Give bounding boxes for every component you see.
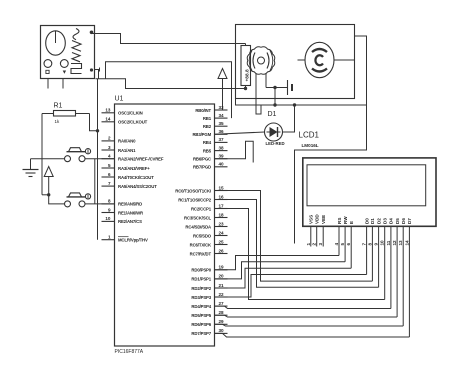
svg-text:RA4/T0CKI/C1OUT: RA4/T0CKI/C1OUT xyxy=(118,175,154,180)
svg-text:D6: D6 xyxy=(401,218,406,224)
svg-text:RC5/SDO: RC5/SDO xyxy=(193,233,212,238)
svg-text:OSC2/CLKOUT: OSC2/CLKOUT xyxy=(118,120,148,125)
svg-text:1k: 1k xyxy=(55,119,61,124)
svg-text:10: 10 xyxy=(380,240,385,246)
svg-text:RA0/AN0: RA0/AN0 xyxy=(118,139,136,144)
svg-text:12: 12 xyxy=(392,240,397,246)
svg-text:7: 7 xyxy=(108,181,111,186)
svg-text:VDD: VDD xyxy=(315,214,320,224)
svg-text:VSS: VSS xyxy=(309,215,314,224)
svg-text:5: 5 xyxy=(108,163,111,168)
svg-text:30: 30 xyxy=(219,328,225,333)
svg-text:14: 14 xyxy=(404,240,409,246)
svg-text:13: 13 xyxy=(105,108,111,113)
svg-text:RC3/SCK/SCL: RC3/SCK/SCL xyxy=(184,215,212,220)
svg-text:RE0/AN5/RD: RE0/AN5/RD xyxy=(118,202,142,207)
svg-text:25: 25 xyxy=(219,239,225,244)
svg-text:+88.8: +88.8 xyxy=(245,69,251,81)
svg-text:D1: D1 xyxy=(370,218,375,224)
svg-text:18: 18 xyxy=(219,212,225,217)
svg-text:RB0/INT: RB0/INT xyxy=(195,108,211,113)
svg-text:39: 39 xyxy=(219,154,225,159)
svg-text:RC7/RX/DT: RC7/RX/DT xyxy=(190,251,212,256)
svg-text:6: 6 xyxy=(346,243,351,246)
svg-text:OSC1/CLKIN: OSC1/CLKIN xyxy=(118,111,143,116)
svg-text:VEE: VEE xyxy=(321,215,326,224)
svg-text:4: 4 xyxy=(334,243,339,246)
svg-text:24: 24 xyxy=(219,230,225,235)
svg-text:1: 1 xyxy=(108,235,111,240)
svg-text:36: 36 xyxy=(219,129,225,134)
svg-text:RS: RS xyxy=(337,218,342,224)
svg-text:17: 17 xyxy=(219,203,225,208)
svg-text:13: 13 xyxy=(398,240,403,246)
svg-text:1: 1 xyxy=(306,243,311,246)
svg-text:33: 33 xyxy=(219,105,225,110)
svg-text:RE1/AN6/WR: RE1/AN6/WR xyxy=(118,210,144,215)
svg-text:RC1/T1OSI/CCP2: RC1/T1OSI/CCP2 xyxy=(178,197,212,202)
svg-text:RD5/PSP5: RD5/PSP5 xyxy=(191,313,211,318)
svg-text:RD7/PSP7: RD7/PSP7 xyxy=(191,331,211,336)
svg-text:D1: D1 xyxy=(268,111,277,118)
svg-text:RA2/AN2/VREF-/CVREF: RA2/AN2/VREF-/CVREF xyxy=(118,157,164,162)
svg-text:15: 15 xyxy=(219,185,225,190)
svg-text:27: 27 xyxy=(219,301,225,306)
svg-text:R1: R1 xyxy=(54,103,63,110)
svg-text:4: 4 xyxy=(108,154,111,159)
svg-text:6: 6 xyxy=(108,172,111,177)
svg-text:8: 8 xyxy=(367,243,372,246)
svg-text:9: 9 xyxy=(374,243,379,246)
svg-text:RW: RW xyxy=(343,216,348,224)
svg-text:RE2/AN7/CS: RE2/AN7/CS xyxy=(118,219,142,224)
svg-text:LM016L: LM016L xyxy=(302,143,319,148)
svg-text:38: 38 xyxy=(219,145,225,150)
svg-text:37: 37 xyxy=(219,137,225,142)
svg-text:40: 40 xyxy=(219,162,225,167)
svg-text:8: 8 xyxy=(108,199,111,204)
svg-text:2: 2 xyxy=(108,136,111,141)
svg-text:D2: D2 xyxy=(376,218,381,224)
svg-text:35: 35 xyxy=(219,121,225,126)
svg-text:RA3/AN3/VREF+: RA3/AN3/VREF+ xyxy=(118,166,150,171)
svg-text:RA5/AN4/SS/C2OUT: RA5/AN4/SS/C2OUT xyxy=(118,184,157,189)
svg-text:D4: D4 xyxy=(389,218,394,224)
svg-text:LCD1: LCD1 xyxy=(299,131,320,140)
svg-text:3: 3 xyxy=(318,243,323,246)
svg-text:E: E xyxy=(349,221,354,224)
svg-text:10: 10 xyxy=(105,216,111,221)
svg-text:3: 3 xyxy=(108,145,111,150)
svg-text:28: 28 xyxy=(219,310,225,315)
svg-text:RC6/TX/CK: RC6/TX/CK xyxy=(190,242,212,247)
svg-text:RA1/AN1: RA1/AN1 xyxy=(118,148,136,153)
svg-text:RB1: RB1 xyxy=(203,116,212,121)
svg-text:D5: D5 xyxy=(395,218,400,224)
svg-text:RB4: RB4 xyxy=(203,140,212,145)
svg-text:29: 29 xyxy=(219,319,225,324)
svg-text:21: 21 xyxy=(219,283,225,288)
svg-text:5: 5 xyxy=(340,243,345,246)
svg-text:D3: D3 xyxy=(383,218,388,224)
svg-text:RC4/SDI/SDA: RC4/SDI/SDA xyxy=(185,224,211,229)
svg-text:23: 23 xyxy=(219,221,225,226)
svg-text:PIC16F877A: PIC16F877A xyxy=(115,349,144,355)
svg-text:22: 22 xyxy=(219,292,225,297)
svg-text:2: 2 xyxy=(312,243,317,246)
svg-text:RB5: RB5 xyxy=(203,148,212,153)
svg-text:26: 26 xyxy=(219,248,225,253)
svg-text:11: 11 xyxy=(386,240,391,245)
svg-text:U1: U1 xyxy=(115,96,124,103)
svg-text:RD4/PSP4: RD4/PSP4 xyxy=(191,304,211,309)
svg-text:19: 19 xyxy=(219,265,225,270)
svg-text:16: 16 xyxy=(219,194,225,199)
svg-text:RD3/PSP3: RD3/PSP3 xyxy=(191,295,211,300)
svg-text:RB6/PGC: RB6/PGC xyxy=(193,157,211,162)
svg-text:14: 14 xyxy=(105,117,111,122)
svg-text:7: 7 xyxy=(362,243,367,246)
svg-text:RB7/PGD: RB7/PGD xyxy=(193,165,211,170)
svg-text:RB3/PGM: RB3/PGM xyxy=(192,132,211,137)
svg-text:20: 20 xyxy=(219,274,225,279)
svg-text:RD0/PSP0: RD0/PSP0 xyxy=(191,268,211,273)
svg-text:LED-RED: LED-RED xyxy=(266,141,285,146)
svg-text:D7: D7 xyxy=(407,218,412,224)
svg-text:9: 9 xyxy=(108,207,111,212)
svg-text:MCLR/Vpp/THV: MCLR/Vpp/THV xyxy=(118,238,148,243)
svg-text:RD1/PSP1: RD1/PSP1 xyxy=(191,277,211,282)
svg-text:RB2: RB2 xyxy=(203,124,212,129)
svg-text:RC2/CCP1: RC2/CCP1 xyxy=(191,206,212,211)
svg-text:34: 34 xyxy=(219,113,225,118)
svg-text:RC0/T1OSO/T1CKI: RC0/T1OSO/T1CKI xyxy=(175,188,211,193)
svg-text:RD6/PSP6: RD6/PSP6 xyxy=(191,322,211,327)
svg-text:D0: D0 xyxy=(364,218,369,224)
svg-text:RD2/PSP2: RD2/PSP2 xyxy=(191,286,211,291)
